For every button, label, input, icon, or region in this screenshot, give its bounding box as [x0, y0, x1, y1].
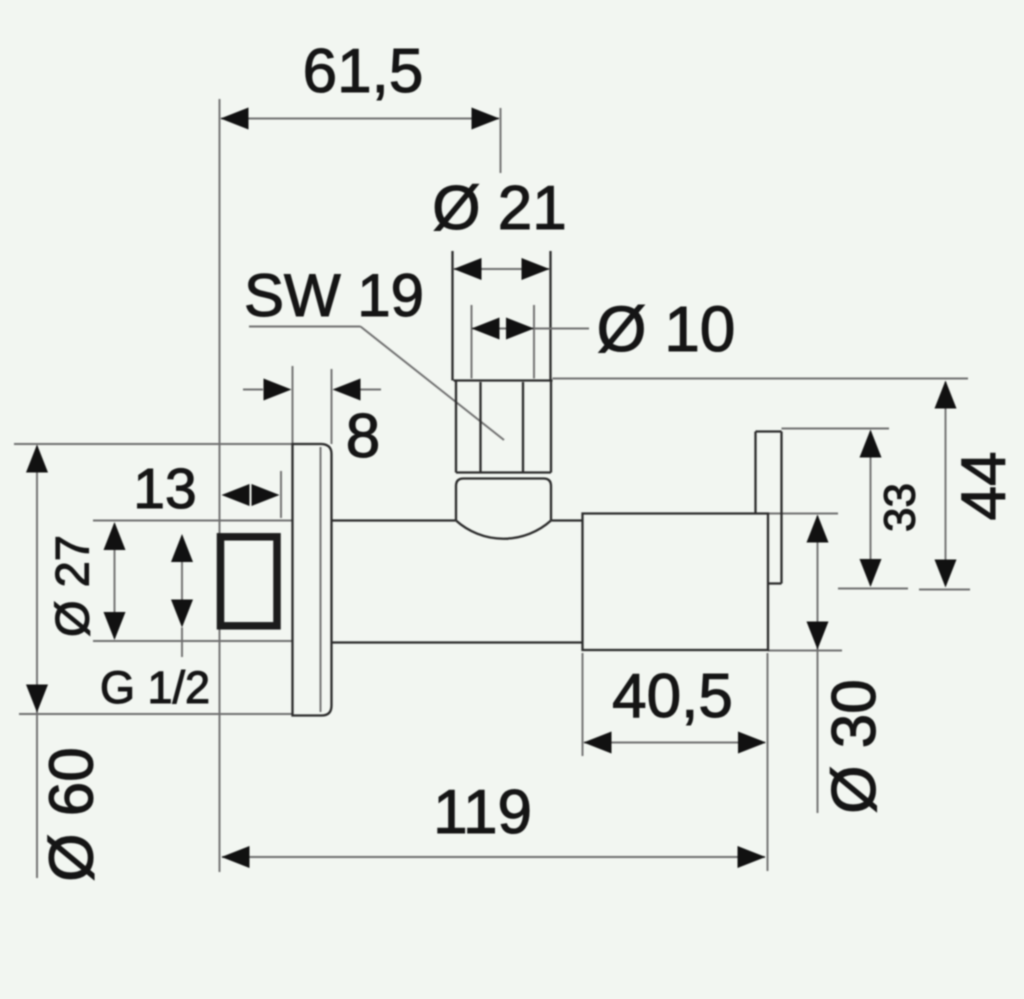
svg-text:Ø 27: Ø 27 — [46, 535, 99, 637]
dim 33 up arrow — [860, 430, 882, 458]
dim 13 right extension line — [280, 471, 282, 518]
dim 8 right arrow — [333, 379, 361, 401]
dim 119 line — [222, 856, 765, 858]
dim G1/2 up arrow — [171, 534, 193, 562]
dim Ø10 line and leader — [472, 328, 590, 330]
pipe silhouette / dim Ø27 bottom extension — [93, 640, 293, 642]
hex nut left facet line — [479, 382, 481, 472]
dim 33 top extension — [782, 428, 890, 430]
dim 40,5 left extension — [582, 653, 584, 756]
pipe Ø10 right line — [533, 305, 535, 379]
hex nut right facet line — [522, 382, 524, 472]
dim 8 left extension line — [292, 366, 294, 444]
dim 8 right tail — [361, 389, 382, 391]
dim 40,5 / 119 right extension — [767, 653, 769, 871]
dim G1/2 line — [181, 536, 183, 625]
hex nut SW19 top edge — [454, 379, 553, 381]
dim Ø21 right arrow — [522, 258, 550, 280]
wall flange outline — [293, 444, 332, 716]
body top line right of cap — [552, 519, 583, 521]
dim Ø30 top extension — [768, 513, 838, 515]
leader SW 19 diagonal to hex — [361, 327, 505, 441]
pipe silhouette / dim Ø27 top extension — [93, 520, 293, 522]
dim 44 line — [945, 382, 947, 585]
leader G1/2 — [181, 628, 183, 658]
dim Ø60 bottom extension — [19, 713, 293, 715]
dim 61,5 line — [221, 118, 499, 120]
dim 119 left arrow — [222, 846, 250, 868]
wire: extension line right of 61,5 (valve axis) — [500, 108, 502, 173]
outlet tube right edge — [780, 432, 782, 584]
svg-text:Ø 30: Ø 30 — [820, 679, 889, 813]
svg-text:Ø 21: Ø 21 — [432, 174, 566, 243]
dim Ø27 up arrow — [104, 522, 126, 550]
leader SW 19 underline — [249, 326, 361, 328]
dim Ø27 line — [114, 524, 116, 638]
svg-text:G 1/2: G 1/2 — [100, 662, 210, 713]
dim 8 left tail — [243, 389, 263, 391]
dim 33 line — [870, 432, 872, 586]
hex nut left edge — [455, 381, 457, 473]
dim 119 right arrow — [738, 846, 766, 868]
dim 61,5 right arrow — [472, 108, 500, 130]
dim Ø30 line — [817, 516, 819, 813]
dim 8 right extension line — [331, 369, 333, 444]
dim 44 top extension from hex to right — [553, 378, 969, 380]
svg-text:44: 44 — [950, 452, 1019, 521]
dim Ø60 up arrow — [26, 445, 48, 473]
dim Ø30 down arrow — [807, 622, 829, 650]
dim Ø10 left arrow — [472, 318, 500, 340]
dim 13 left arrow — [222, 484, 250, 506]
svg-text:Ø 60: Ø 60 — [38, 747, 107, 881]
svg-text:119: 119 — [433, 778, 532, 847]
dim 40,5 line — [584, 742, 765, 744]
hex nut right edge — [550, 381, 552, 473]
dim Ø60 down arrow — [26, 685, 48, 713]
outlet tube top edge — [756, 430, 782, 432]
wall flange inner shading line — [320, 447, 322, 712]
dim Ø60 line — [36, 446, 38, 878]
dim G1/2 down arrow — [171, 600, 193, 628]
svg-text:61,5: 61,5 — [303, 37, 424, 106]
dim 40,5 left arrow — [584, 732, 612, 754]
hex nut bottom edge — [456, 471, 551, 473]
inlet thread G1/2 block — [221, 537, 278, 626]
svg-text:8: 8 — [346, 402, 380, 471]
dim 44 down arrow — [935, 560, 957, 588]
svg-text:33: 33 — [876, 483, 925, 532]
wire: extension line left of 61,5 running down to 119 dim — [219, 99, 221, 872]
dim Ø30 bottom extension — [768, 650, 842, 652]
svg-text:SW 19: SW 19 — [244, 262, 424, 329]
body bottom line — [332, 641, 583, 643]
dim 40,5 right arrow — [738, 732, 766, 754]
dim 33 bottom extension — [838, 588, 908, 590]
dim 13 right arrow — [252, 484, 280, 506]
dim Ø21 left arrow — [454, 258, 482, 280]
pipe Ø10 left line — [471, 305, 473, 379]
dim Ø21 line — [454, 268, 549, 270]
dim 33 down arrow — [860, 559, 882, 587]
outlet tube bottom step — [768, 582, 782, 584]
body right section rectangle — [583, 514, 769, 651]
svg-text:40,5: 40,5 — [612, 662, 733, 731]
dim Ø27 down arrow — [104, 612, 126, 640]
dim 44 up arrow — [935, 381, 957, 409]
svg-text:Ø 10: Ø 10 — [597, 293, 736, 365]
valve cap outline — [456, 479, 551, 521]
dim 44 bottom extension — [919, 589, 970, 591]
valve dome arc — [456, 521, 551, 539]
dim 61,5 left arrow — [221, 108, 249, 130]
dim Ø60 top extension — [14, 443, 293, 445]
svg-text:13: 13 — [133, 457, 196, 521]
body top line left of cap — [332, 519, 456, 521]
tube Ø21 right outline — [549, 251, 551, 381]
outlet tube left edge — [754, 432, 756, 514]
dim Ø30 up arrow — [807, 515, 829, 543]
dim Ø10 right arrow — [506, 318, 534, 340]
tube Ø21 left outline — [451, 251, 453, 381]
dim 8 left arrow — [264, 379, 292, 401]
